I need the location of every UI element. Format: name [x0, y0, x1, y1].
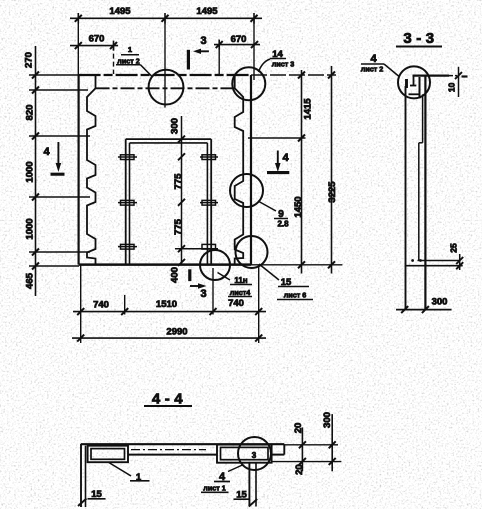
section marker 3 bottom	[190, 269, 207, 300]
svg-text:670: 670	[231, 34, 247, 45]
tie bracket left level 1	[118, 155, 137, 160]
callout label 11н/лист4	[218, 273, 253, 298]
bottom extension line right	[258, 266, 260, 343]
tie bracket right level 3	[175, 244, 218, 249]
4-4 top face extension	[284, 444, 338, 446]
3-3 top edge	[413, 74, 450, 76]
4-4 left end tick	[78, 499, 87, 507]
4-4 pocket 1 outer	[88, 446, 128, 463]
right wall inner edge with keys	[235, 76, 244, 265]
center dim line of niche	[178, 116, 185, 266]
callout circle K5 bottom-center	[200, 250, 230, 280]
4-4 label 15 right	[234, 490, 251, 501]
callout label 1/лист2	[116, 45, 153, 77]
svg-text:1495: 1495	[109, 6, 131, 17]
bottom extension line niche left	[124, 295, 126, 315]
section marker 4 left	[43, 142, 64, 174]
svg-text:лист 2: лист 2	[361, 65, 384, 74]
svg-text:465: 465	[25, 272, 36, 289]
svg-text:1: 1	[128, 45, 132, 54]
left wall inner edge with keys	[87, 76, 96, 265]
svg-text:11н: 11н	[234, 276, 247, 285]
svg-text:740: 740	[93, 300, 109, 311]
niche left wall outer line	[125, 139, 127, 265]
dim 670 left	[70, 41, 118, 74]
tie bracket right level 2	[200, 200, 218, 205]
3-3 wall right edge	[424, 76, 426, 310]
3-3 wall inner line lower	[418, 143, 420, 261]
svg-text:1510: 1510	[156, 299, 177, 310]
callout circle K3 mid-right	[230, 174, 263, 207]
4-4 top face	[81, 443, 284, 445]
tie bracket left level 2	[118, 200, 137, 205]
4-4 dim line 20/20	[299, 427, 306, 471]
right dim line A 1415/1450	[248, 70, 306, 274]
panel bottom edge	[79, 263, 251, 266]
svg-text:2.8: 2.8	[277, 220, 289, 229]
4-4 lower level extension	[272, 461, 342, 463]
dim 670 right	[214, 40, 260, 74]
svg-text:670: 670	[89, 34, 105, 45]
4-4 stem tick	[249, 499, 257, 507]
svg-text:1000: 1000	[25, 218, 36, 239]
3-3 panel bottom line	[405, 265, 463, 267]
left wall outer edge	[77, 75, 79, 265]
tie bracket right level 1	[200, 155, 218, 160]
4-4 pocket 2 outer	[217, 445, 272, 463]
callout label 9/2.8	[258, 201, 289, 229]
svg-text:3: 3	[200, 35, 206, 47]
4-4 stem under pocket 2 left line	[248, 463, 250, 507]
svg-text:4: 4	[43, 146, 50, 158]
section 3-3 title	[396, 30, 442, 47]
3-3 ledge line	[418, 260, 460, 262]
callout circle K1 top-left	[149, 70, 184, 105]
4-4 pocket 1 inner	[91, 449, 125, 460]
svg-text:1415: 1415	[303, 98, 314, 120]
extension line right of circle K2	[253, 18, 255, 80]
4-4 label 4/лист1	[201, 465, 244, 493]
svg-text:400: 400	[170, 267, 181, 283]
svg-text:2990: 2990	[166, 327, 187, 338]
svg-text:775: 775	[173, 218, 184, 235]
3-3 wall inner line upper	[422, 94, 424, 143]
callout label 15/лист6	[259, 264, 313, 300]
section 4-4 title	[144, 391, 192, 408]
niche right wall inner line	[206, 143, 208, 265]
right dim line B 3225	[251, 66, 342, 274]
svg-text:лист 6: лист 6	[284, 291, 307, 300]
bottom extension line niche right	[212, 268, 214, 315]
niche left wall inner line	[129, 143, 131, 265]
left vertical dim line	[29, 46, 90, 296]
svg-text:1450: 1450	[293, 196, 304, 217]
extension line from top dim to wall	[77, 18, 79, 75]
section marker 4 right	[267, 151, 289, 173]
4-4 left end outer line	[80, 444, 82, 507]
svg-text:4-4: 4-4	[152, 391, 187, 408]
svg-text:1495: 1495	[196, 6, 218, 17]
3-3 dim 10 at top right	[447, 67, 468, 97]
svg-text:10: 10	[447, 82, 457, 92]
4-4 mid bottom face	[128, 454, 217, 456]
3-3 top edge dashed continuation	[449, 75, 457, 77]
4-4 left end inner line	[85, 446, 87, 507]
3-3 inner jog mark	[419, 142, 423, 144]
svg-text:20: 20	[294, 464, 305, 475]
3-3 top step detail	[407, 76, 420, 98]
3-3 ledge dot left	[411, 259, 414, 262]
callout label 4/лист2 section 3-3	[361, 53, 399, 76]
callout circle K2 top-right	[232, 67, 265, 100]
section marker 3 top	[188, 35, 209, 70]
svg-text:300: 300	[170, 118, 181, 134]
svg-text:3-3: 3-3	[403, 30, 438, 47]
bottom extension line left wall	[80, 265, 82, 343]
svg-text:3: 3	[252, 451, 257, 460]
panel top edge outer	[79, 74, 251, 76]
4-4 centre dash line	[131, 449, 206, 451]
svg-text:лист 1: лист 1	[203, 484, 226, 493]
extension line through circle K1	[164, 18, 166, 108]
4-4 label 15 left	[88, 489, 106, 500]
svg-text:775: 775	[173, 173, 184, 190]
4-4 right end bottom face	[272, 454, 285, 456]
panel top edge inner	[96, 87, 235, 89]
niche top edge outer	[126, 138, 212, 140]
4-4 stem under pocket 2 right line	[255, 463, 257, 507]
top dim line 1495+1495	[70, 13, 262, 24]
svg-text:4: 4	[370, 53, 377, 65]
svg-text:1000: 1000	[25, 161, 36, 182]
svg-text:25: 25	[449, 243, 459, 253]
bottom dim row 2990	[72, 335, 266, 342]
svg-text:4: 4	[282, 152, 289, 164]
4-4 label 1	[108, 462, 150, 483]
svg-text:300: 300	[432, 297, 448, 308]
4-4 right end edge	[283, 444, 285, 454]
3-3 dim 25	[449, 243, 464, 270]
svg-text:300: 300	[322, 412, 333, 428]
tie bracket left level 3	[118, 244, 137, 249]
4-4 pocket 2 inner	[221, 447, 269, 459]
3-3 bottom dim line 300	[396, 306, 452, 313]
3-3 wall left edge	[405, 86, 407, 310]
right wall outer edge	[250, 75, 252, 265]
svg-text:820: 820	[25, 105, 36, 121]
svg-text:3: 3	[200, 288, 206, 300]
callout circle K4 bottom-right	[236, 236, 268, 268]
4-4 callout circle	[238, 437, 271, 470]
4-4 dim line 300	[329, 414, 336, 471]
svg-text:лист4: лист4	[230, 288, 251, 297]
3-3 ledge dot right	[419, 259, 422, 262]
callout circle section 3-3	[398, 66, 430, 98]
bottom dim row 740/1510/740	[73, 308, 266, 315]
niche top edge inner	[130, 142, 208, 144]
callout label 14/лист3	[259, 49, 295, 72]
svg-text:20: 20	[293, 423, 304, 434]
svg-text:270: 270	[24, 52, 35, 68]
svg-text:740: 740	[228, 298, 244, 309]
svg-text:лист 3: лист 3	[272, 60, 295, 69]
svg-text:3225: 3225	[327, 181, 338, 203]
niche right wall outer line	[210, 139, 212, 265]
